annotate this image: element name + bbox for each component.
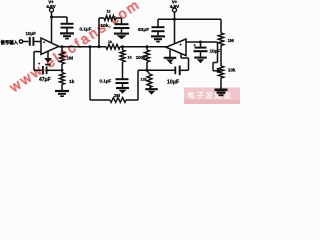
svg-text:10μF: 10μF [26,31,37,36]
svg-text:2M: 2M [114,93,120,98]
svg-text:10k: 10k [228,67,236,72]
svg-text:10μF: 10μF [210,48,221,53]
svg-text:电子发烧友: 电子发烧友 [187,90,233,100]
svg-text:1k: 1k [69,79,75,85]
svg-text:信号输入: 信号输入 [1,39,19,46]
svg-text:63μF: 63μF [138,27,149,33]
svg-text:1k: 1k [107,9,111,13]
svg-text:100k: 100k [136,55,146,60]
svg-text:1M: 1M [228,38,235,43]
svg-text:+: + [180,43,182,47]
svg-text:10k: 10k [101,23,109,29]
svg-text:10μF: 10μF [167,79,179,85]
svg-text:0.1μF: 0.1μF [100,78,112,83]
svg-text:1k: 1k [108,40,112,44]
svg-text:12k: 12k [140,77,147,81]
svg-text:1M: 1M [67,55,74,61]
svg-text:47μF: 47μF [39,77,51,83]
svg-text:0.1μF: 0.1μF [80,27,92,32]
